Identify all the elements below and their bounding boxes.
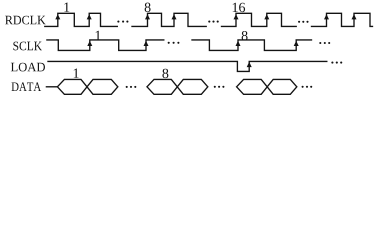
RDCLK wire segment: pulses 1-2 bbox=[45, 13, 118, 26]
RDCLK signal label bbox=[5, 16, 46, 25]
SCLK rising-edge arrow (pulse 8) bbox=[236, 41, 241, 46]
RDCLK ellipsis 1 bbox=[117, 21, 128, 23]
RDCLK wire segment: final pulses bbox=[312, 13, 373, 26]
DATA valid cells 1-2 bbox=[57, 79, 117, 94]
RDCLK count label "8" bbox=[145, 3, 151, 12]
RDCLK rising-edge arrow (final a) bbox=[324, 14, 329, 19]
RDCLK rising-edge arrow (pulse 8) bbox=[145, 14, 150, 19]
DATA signal label bbox=[12, 82, 42, 91]
SCLK signal label bbox=[13, 42, 42, 51]
RDCLK wire segment: pulses 8-9 bbox=[132, 13, 206, 26]
DATA valid cells 8-9 bbox=[147, 79, 208, 94]
RDCLK wire segment: pulses 16-17 bbox=[222, 13, 297, 26]
LOAD signal label bbox=[11, 63, 45, 72]
SCLK wire segment 2 bbox=[192, 40, 312, 51]
LOAD ellipsis bbox=[331, 62, 342, 64]
DATA cell label "1" bbox=[74, 69, 79, 78]
DATA ellipsis 1 bbox=[126, 86, 137, 88]
RDCLK count label "1" bbox=[64, 3, 69, 12]
RDCLK rising-edge arrow (pulse 2) bbox=[87, 14, 92, 19]
DATA ellipsis 3 bbox=[302, 86, 313, 88]
SCLK wire segment 1 bbox=[47, 40, 164, 51]
RDCLK ellipsis 3 bbox=[298, 21, 309, 23]
LOAD wire with low pulse bbox=[48, 61, 327, 71]
RDCLK rising-edge arrow (pulse 17) bbox=[264, 14, 269, 19]
LOAD rising-edge arrow bbox=[247, 62, 252, 67]
SCLK rising-edge arrow (pulse 1) bbox=[87, 41, 92, 46]
RDCLK count label "16" bbox=[233, 3, 245, 12]
SCLK count label "1" bbox=[96, 31, 101, 40]
DATA lead-in wire bbox=[46, 86, 57, 88]
SCLK rising-edge arrow (pulse 2) bbox=[144, 41, 149, 46]
RDCLK rising-edge arrow (pulse 1) bbox=[55, 14, 60, 19]
RDCLK ellipsis 2 bbox=[208, 21, 219, 23]
RDCLK rising-edge arrow (pulse 16) bbox=[234, 14, 239, 19]
SCLK count label "8" bbox=[242, 31, 248, 40]
RDCLK rising-edge arrow (final b) bbox=[352, 14, 357, 19]
SCLK ellipsis 2 bbox=[319, 42, 330, 44]
SCLK ellipsis 1 bbox=[168, 42, 180, 44]
DATA ellipsis 2 bbox=[214, 86, 225, 88]
DATA valid cells 16-17 bbox=[237, 79, 297, 94]
RDCLK rising-edge arrow (pulse 9) bbox=[172, 14, 177, 19]
SCLK rising-edge arrow (pulse 9) bbox=[294, 41, 299, 46]
DATA cell label "8" bbox=[162, 69, 168, 78]
